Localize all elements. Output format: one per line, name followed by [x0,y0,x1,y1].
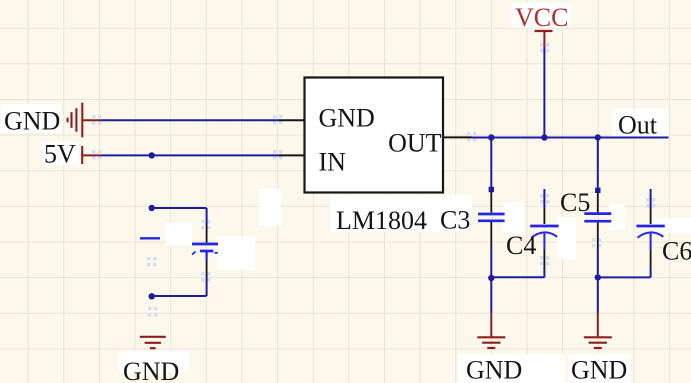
svg-text:GND: GND [466,356,522,383]
svg-text:C5: C5 [560,188,590,217]
svg-text:IN: IN [319,147,347,176]
svg-text:GND: GND [4,106,60,135]
svg-text:C4: C4 [506,231,536,260]
svg-text:GND: GND [571,356,627,383]
svg-text:GND: GND [319,103,375,132]
svg-text:Out: Out [618,110,658,139]
svg-text:VCC: VCC [515,3,568,32]
svg-text:GND: GND [123,357,179,383]
svg-text:OUT: OUT [388,129,442,158]
svg-text:5V: 5V [44,140,76,169]
svg-text:C3: C3 [440,206,470,235]
svg-text:C6: C6 [662,237,691,266]
svg-text:LM1804: LM1804 [336,206,427,235]
